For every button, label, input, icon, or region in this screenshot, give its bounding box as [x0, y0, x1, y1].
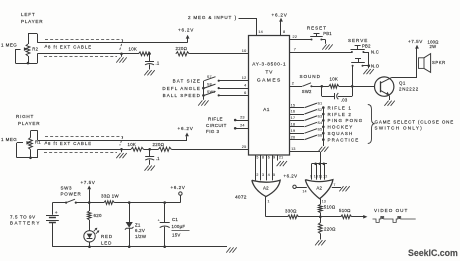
node sound to Q1 base	[351, 85, 375, 88]
svg-text:1: 1	[268, 199, 270, 203]
svg-text:SW2: SW2	[302, 89, 312, 94]
svg-text:6: 6	[244, 91, 246, 95]
sound output pin 2 / switch SW2	[290, 74, 323, 94]
svg-text:PLAYER: PLAYER	[21, 19, 43, 24]
video out label and waveform	[373, 208, 416, 222]
svg-text:PING PONG: PING PONG	[328, 118, 364, 123]
resistor 10K (left player)	[122, 47, 151, 56]
+7.5V supply to speaker	[408, 39, 423, 58]
svg-text:LED: LED	[101, 240, 112, 245]
svg-text:AY-3-8500-1: AY-3-8500-1	[252, 61, 286, 66]
svg-text:GAMES: GAMES	[257, 77, 282, 83]
red LED power indicator	[84, 220, 113, 248]
serve N.O. contact	[351, 59, 379, 69]
svg-text:24: 24	[240, 124, 245, 128]
switch common ground (options)	[198, 81, 208, 106]
svg-text:C1: C1	[172, 217, 178, 222]
svg-text:8 ft EXT CABLE: 8 ft EXT CABLE	[48, 45, 92, 50]
+6.2V supply to chip pin 8	[272, 13, 288, 36]
wire to chip pin 10	[189, 53, 248, 55]
resistor 620 to LED	[87, 203, 102, 220]
svg-text:510Ω: 510Ω	[324, 204, 336, 209]
svg-text:8 ft EXT CABLE: 8 ft EXT CABLE	[48, 141, 92, 146]
svg-text:CIRCUIT: CIRCUIT	[206, 123, 227, 128]
svg-text:13: 13	[291, 147, 296, 151]
svg-text:10: 10	[242, 49, 247, 53]
svg-text:RIGHT: RIGHT	[16, 114, 34, 119]
svg-text:RIFLE: RIFLE	[208, 117, 223, 122]
serve button ground	[363, 69, 367, 74]
resistor 330 ohm	[285, 209, 320, 219]
gate output pin 1 wire	[266, 197, 288, 217]
svg-text:2: 2	[292, 81, 294, 85]
svg-text:SWITCH ONLY): SWITCH ONLY)	[375, 126, 424, 131]
zener Z1 6.2V 1/2W	[125, 201, 147, 248]
right player label	[16, 114, 40, 126]
svg-text:18: 18	[291, 123, 296, 127]
svg-text:330Ω: 330Ω	[285, 209, 297, 214]
svg-text:14: 14	[258, 30, 263, 34]
8 ft ext cable (shield, left player)	[44, 40, 123, 57]
transistor Q1 2N2222	[375, 77, 419, 100]
OR gate right ground pin 7	[332, 183, 350, 191]
svg-text:16: 16	[291, 110, 296, 114]
svg-text:BAT SIZE: BAT SIZE	[173, 78, 201, 83]
OR gate A2 (left half of 4072)	[252, 180, 280, 196]
svg-text:620: 620	[94, 213, 103, 218]
left player label	[21, 12, 43, 24]
svg-text:BALL SPEED: BALL SPEED	[163, 93, 201, 98]
svg-text:6.2V: 6.2V	[135, 228, 145, 233]
switch S1 RIFLE 1 pin 15	[290, 102, 352, 111]
wire pin 13 to OR gate inputs	[290, 147, 321, 164]
svg-text:FIG 3: FIG 3	[206, 129, 220, 134]
svg-text:5: 5	[273, 173, 275, 177]
resistor 220 ohm (left player)	[176, 46, 190, 56]
switch S2 RIFLE 2 pin 16	[290, 108, 352, 117]
svg-text:RESET: RESET	[307, 25, 327, 30]
summing node	[319, 216, 322, 219]
svg-text:2 MEG & INPUT: 2 MEG & INPUT	[188, 15, 232, 20]
gate output 13 / resistor 510 ohm vertical	[318, 199, 335, 217]
OR gate A2 (right half of 4072)	[305, 180, 333, 199]
svg-text:SW3: SW3	[61, 185, 73, 190]
svg-text:4: 4	[244, 84, 246, 88]
svg-text:2W: 2W	[430, 44, 437, 49]
wire serve N.O. to sound node	[352, 66, 354, 87]
wire lower conductor (pot wiper to 10K)	[37, 53, 129, 55]
resistor 220 ohm (right player)	[153, 142, 172, 151]
svg-text:+6.2V: +6.2V	[178, 126, 194, 131]
serve pushbutton PB2 on pin 7	[290, 38, 379, 65]
svg-text:10K: 10K	[129, 47, 138, 52]
svg-text:RIFLE 1: RIFLE 1	[328, 105, 353, 110]
wire chip pin 8 to gate input 3	[261, 155, 265, 180]
svg-text:A2: A2	[316, 185, 322, 190]
svg-text:11: 11	[319, 174, 323, 178]
svg-text:10K: 10K	[330, 76, 339, 81]
supply bottom rail and ground	[52, 247, 236, 253]
svg-text:N.C: N.C	[371, 50, 379, 55]
resistor 220 ohm to ground	[315, 217, 336, 246]
svg-text:.1: .1	[156, 61, 160, 66]
svg-text:S6: S6	[318, 134, 323, 138]
game select brace note	[368, 105, 454, 144]
svg-text:BATTERY: BATTERY	[10, 221, 41, 226]
svg-text:SQUASH: SQUASH	[328, 131, 354, 136]
svg-text:17: 17	[291, 116, 296, 120]
svg-text:20: 20	[291, 135, 296, 139]
svg-text:+6.2V: +6.2V	[171, 185, 186, 190]
svg-text:8: 8	[262, 155, 264, 159]
svg-text:.03: .03	[341, 98, 348, 103]
svg-text:15V: 15V	[172, 233, 181, 238]
svg-text:+7.5V: +7.5V	[81, 180, 96, 185]
Q1 emitter ground	[384, 101, 388, 106]
speaker SPKR 100 ohm 2W	[417, 39, 446, 72]
svg-text:19: 19	[291, 129, 296, 133]
svg-text:12: 12	[242, 76, 247, 80]
svg-text:21: 21	[279, 155, 284, 159]
svg-text:7.5 TO 9V: 7.5 TO 9V	[10, 214, 36, 219]
svg-text:N.O: N.O	[371, 63, 380, 68]
svg-text:1 MEG: 1 MEG	[1, 137, 17, 142]
svg-text:25: 25	[242, 145, 247, 149]
svg-text:A1: A1	[263, 107, 270, 113]
svg-text:4072: 4072	[235, 194, 247, 200]
svg-text:S1: S1	[318, 102, 323, 106]
svg-text:13: 13	[322, 200, 326, 204]
svg-text:220Ω: 220Ω	[176, 46, 188, 51]
svg-text:RIFLE 2: RIFLE 2	[328, 112, 353, 117]
svg-text:7: 7	[294, 47, 296, 51]
svg-text:SPKR: SPKR	[432, 60, 446, 65]
wire chip pin 9 to gate input 5	[273, 155, 276, 180]
switch SW1 (BALL SPEED) to pin 6	[204, 90, 248, 97]
IC A1 AY-3-8500-1 TV GAMES	[249, 36, 290, 156]
cable shield ground (left)	[116, 53, 126, 63]
svg-text:12: 12	[323, 174, 327, 178]
resistor 10K (sound)	[322, 76, 352, 88]
svg-text:SeekIC.com: SeekIC.com	[408, 248, 458, 258]
svg-text:.1: .1	[156, 156, 160, 161]
node / capacitor .1 (left player)	[144, 53, 160, 76]
svg-text:5: 5	[256, 155, 258, 159]
svg-text:LEFT: LEFT	[21, 12, 35, 17]
svg-text:SOUND: SOUND	[300, 74, 321, 79]
svg-text:9: 9	[273, 155, 275, 159]
8 ft ext cable (shield, right player)	[44, 137, 123, 153]
svg-text:PB1: PB1	[323, 31, 332, 36]
svg-text:A2: A2	[263, 186, 269, 191]
svg-text:POWER: POWER	[61, 192, 82, 197]
svg-text:1/2W: 1/2W	[135, 234, 147, 239]
chip pin 21 to ground	[277, 155, 287, 166]
svg-text:S3: S3	[318, 115, 323, 119]
svg-text:S2: S2	[318, 108, 323, 112]
wire lower conductor (right pot wiper to 10K)	[38, 149, 131, 151]
svg-text:220Ω: 220Ω	[153, 142, 165, 147]
svg-text:R2: R2	[32, 47, 38, 52]
wire upper conductor (pot top to +6.2V)	[37, 42, 187, 44]
OR gate right +6.2V pin 14	[284, 174, 307, 194]
capacitor C1 100uF 15V	[158, 201, 190, 248]
+6.2V supply arrow (left player pull-up)	[178, 28, 194, 43]
resistor 10K (right player)	[122, 142, 159, 151]
switch S7 (BAT SIZE) to pin 12	[204, 75, 248, 82]
svg-text:220Ω: 220Ω	[324, 226, 336, 231]
OR gate A2 right - tied inputs 9,10,11,12	[310, 163, 327, 180]
svg-text:15: 15	[291, 103, 296, 107]
resistor 510 ohm to video out	[320, 208, 367, 219]
svg-text:10K: 10K	[128, 142, 137, 147]
potentiometer R2 1 MEG (left player)	[1, 34, 39, 65]
svg-text:3: 3	[262, 173, 264, 177]
option switch labels	[162, 78, 201, 98]
+7.5V rail arrow	[81, 180, 96, 203]
svg-text:14: 14	[303, 190, 307, 194]
svg-text:PLAYER: PLAYER	[18, 121, 40, 126]
wire chip pin 6 to gate input 4	[267, 155, 270, 180]
svg-text:+6.2V: +6.2V	[178, 28, 194, 33]
svg-text:22: 22	[293, 35, 298, 39]
2 MEG input terminal	[188, 15, 263, 35]
svg-text:10: 10	[314, 174, 318, 178]
svg-text:HOCKEY: HOCKEY	[328, 125, 354, 130]
capacitor .03 (parallel with 10K)	[322, 86, 353, 102]
svg-text:23: 23	[240, 115, 245, 119]
switch S3 PING PONG pin 17	[290, 115, 363, 124]
svg-text:9: 9	[310, 174, 312, 178]
svg-text:Q1: Q1	[399, 80, 406, 85]
svg-text:510Ω: 510Ω	[339, 208, 351, 213]
svg-text:TV: TV	[265, 69, 273, 75]
svg-text:+6.2V: +6.2V	[284, 174, 298, 179]
wire upper conductor (right pot to +6.2V)	[38, 140, 187, 142]
svg-text:2N2222: 2N2222	[399, 87, 419, 92]
reset pushbutton PB1 on pin 22	[290, 25, 333, 49]
rifle circuit fig 3 connections pins 23/24	[206, 115, 249, 134]
cable shield ground (right)	[116, 148, 126, 158]
svg-text:VIDEO OUT: VIDEO OUT	[374, 208, 408, 213]
switch S8 (DEFL ANGLE) to pin 4	[204, 83, 248, 90]
svg-text:8: 8	[283, 30, 285, 34]
svg-text:S5: S5	[318, 127, 323, 131]
svg-text:DEFL ANGLE: DEFL ANGLE	[162, 86, 201, 91]
svg-text:PRACTICE: PRACTICE	[328, 137, 360, 142]
svg-text:+7.5V: +7.5V	[408, 39, 423, 44]
svg-text:33Ω 1W: 33Ω 1W	[101, 193, 119, 198]
svg-text:1 MEG: 1 MEG	[1, 43, 17, 48]
Q1 collector wire to speaker	[392, 69, 418, 78]
svg-text:2: 2	[256, 173, 258, 177]
svg-text:+6.2V: +6.2V	[272, 13, 288, 18]
wire to chip pin 25	[171, 149, 248, 151]
svg-text:100μF: 100μF	[172, 224, 186, 229]
power switch SW3	[52, 185, 104, 204]
battery 7.5 to 9V	[10, 203, 59, 247]
svg-text:6: 6	[268, 155, 270, 159]
+6.2V output terminal	[171, 185, 186, 203]
switch S4 HOCKEY pin 18	[290, 121, 353, 130]
switch S5 SQUASH pin 19	[290, 127, 353, 136]
+6.2V supply arrow (right player pull-up)	[178, 126, 194, 141]
svg-text:PB2: PB2	[362, 43, 371, 48]
resistor 33 ohm 1W	[101, 193, 180, 204]
svg-text:4: 4	[268, 173, 270, 177]
switch S6 PRACTICE pin 20	[290, 134, 359, 143]
svg-text:Z1: Z1	[135, 223, 141, 228]
game select common line to ground	[318, 108, 328, 152]
svg-text:S4: S4	[318, 121, 323, 125]
svg-text:7: 7	[334, 183, 336, 187]
potentiometer R1 1 MEG (right player)	[1, 131, 41, 160]
wire chip pin 5 to gate input 2	[256, 155, 259, 180]
svg-text:GAME SELECT (CLOSE ONE: GAME SELECT (CLOSE ONE	[375, 119, 455, 124]
node / capacitor .1 (right player)	[145, 148, 161, 171]
svg-text:RED: RED	[101, 234, 113, 239]
svg-text:): )	[235, 15, 237, 21]
svg-text:+: +	[158, 218, 161, 223]
